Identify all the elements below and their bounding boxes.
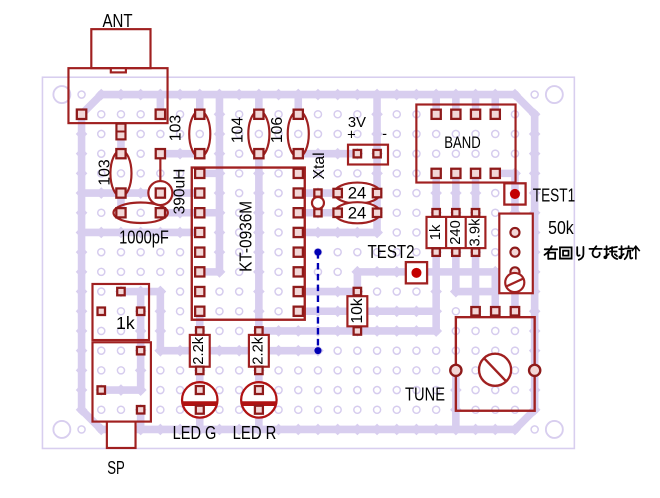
pad Xtal top — [314, 189, 321, 196]
pad 10k top — [354, 288, 361, 295]
pad IC pin left row6 — [195, 208, 204, 217]
wire row6: C-1000pF to IC pin3 and col8 — [155, 207, 226, 219]
capacitor C 104 — [248, 111, 269, 157]
wire col8: top rail down through IC — [214, 89, 226, 278]
pad ANT right — [156, 110, 165, 119]
wire col19: R-1k down to row12 — [430, 246, 442, 336]
pad BAND bottom col19 — [432, 169, 441, 178]
wire col8 to IC pin6 — [194, 266, 225, 278]
battery connector 3V — [348, 145, 388, 165]
wire top rail to BAND pad d — [489, 89, 501, 120]
svg-text:TEST2: TEST2 — [368, 241, 415, 262]
pad IC pin left row10 — [195, 287, 204, 296]
svg-text:LED R: LED R — [233, 422, 277, 443]
wire top rail to C-103b — [194, 89, 206, 120]
svg-text:390uH: 390uH — [171, 169, 188, 215]
LED R — [241, 382, 276, 417]
pad C 103a bottom — [116, 188, 125, 197]
note: migimawari de teikou up (clockwise raises resistance) — [545, 246, 633, 260]
wire SP pad to bottom rail — [135, 404, 147, 435]
wire col15 elbow to R-10k top — [352, 266, 364, 297]
pad SP left — [98, 386, 105, 393]
mounting hole top-right — [546, 86, 563, 103]
wire row10 to col22 — [450, 286, 501, 298]
wire IC pin8 to R-2.2k G — [194, 305, 206, 336]
wire row9: R-10k top via TEST2 to VR-50k edge — [352, 266, 502, 278]
pad resistor top col20 — [452, 209, 459, 216]
wire LED G to bottom rail — [194, 404, 206, 435]
wire col23: TEST1 through VR-50k to TUNE — [509, 168, 521, 318]
pad 24 right row5 — [373, 189, 381, 197]
wire top rail to BAND pad c — [470, 89, 482, 120]
wire col5 down to row13 — [155, 286, 167, 357]
svg-text:106: 106 — [269, 117, 286, 144]
wire col10: C-104 down through IC to row12 — [253, 148, 265, 337]
wire col4: through jacks — [135, 286, 147, 396]
pad 390uH top — [156, 149, 165, 158]
pad IC pin right row9 — [294, 267, 303, 276]
svg-text:2.2k: 2.2k — [191, 336, 207, 365]
pad SP bottom — [137, 406, 144, 413]
capacitor C 103b — [189, 111, 210, 157]
wire IC pin1 to col8 — [194, 168, 225, 180]
LED G — [182, 382, 217, 417]
capacitor 1000pF — [113, 203, 167, 223]
pad 2.2k G top — [196, 327, 203, 334]
pad LED R anode — [255, 386, 263, 394]
wire row12: col10 junction to col19 — [253, 325, 442, 337]
perfboard hole grid — [78, 91, 538, 433]
inductor L 390uH — [148, 154, 172, 205]
pad C 103b top — [195, 110, 204, 119]
pad IC pin left row11 — [195, 307, 204, 316]
phone jack 1k — [92, 284, 149, 340]
pad resistor bottom col20 — [452, 248, 459, 255]
wire row5: IC pin15, Xtal, 24a — [292, 187, 343, 199]
pad IC pin left row8 — [195, 248, 204, 257]
switch BAND — [416, 105, 515, 183]
wire row7-left: left rail to IC pin4 — [76, 227, 206, 239]
pad SP top — [137, 347, 144, 354]
pad 1k jack right — [137, 308, 144, 315]
wire row10: IC pin10 to R-10k — [292, 286, 363, 298]
capacitor 24 row6 — [334, 202, 380, 223]
svg-text:SP: SP — [107, 457, 125, 478]
wire top rail to BAND pad a — [430, 89, 442, 120]
pad 1k jack left — [98, 308, 105, 315]
capacitor 24 row5 — [334, 183, 380, 204]
svg-text:3.9k: 3.9k — [467, 218, 483, 247]
svg-text:Xtal: Xtal — [311, 152, 328, 179]
pad IC pin right row5 — [294, 188, 303, 197]
pad IC pin right row4 — [294, 169, 303, 178]
wire BAND pad d east — [489, 168, 520, 180]
pad 1k jack top — [117, 288, 124, 295]
wire top rail to C-106 — [292, 89, 304, 120]
wire row7-right: IC pin13 to col16 — [292, 227, 382, 239]
pad resistor bottom col21 — [472, 248, 479, 255]
svg-text:1k: 1k — [428, 224, 444, 240]
pad battery + — [354, 150, 361, 157]
pad BAND top col19 — [432, 110, 441, 119]
svg-text:50k: 50k — [548, 217, 574, 238]
pad 24 left row6 — [333, 209, 341, 217]
capacitor C 103a — [110, 150, 131, 196]
pad resistor top col19 — [432, 209, 439, 216]
resistor R 10k — [347, 296, 367, 326]
svg-text:24: 24 — [348, 184, 367, 203]
pad C 106 top — [294, 110, 303, 119]
pad 10k bottom — [354, 327, 361, 334]
svg-text:240: 240 — [448, 220, 464, 245]
pad LED R cathode — [255, 406, 263, 414]
wire perimeter loop: ANT pad via top row, right column, bottom row, left column — [76, 89, 541, 436]
PCB board outline — [42, 77, 574, 448]
wire BAND to R-240 — [450, 168, 462, 219]
pad 24 right row6 — [373, 209, 381, 217]
wire BAND to R-1k — [430, 168, 442, 219]
svg-text:1k: 1k — [116, 313, 135, 333]
pad 2.2k R bottom — [255, 367, 262, 374]
svg-text:104: 104 — [229, 117, 246, 144]
pad IC pin right row11 — [294, 307, 303, 316]
mounting hole bottom-left — [53, 421, 70, 438]
resistor R 2.2k G — [190, 335, 210, 367]
pad 2.2k G bottom — [196, 367, 203, 374]
pad BAND bottom col22 — [491, 169, 500, 178]
wire TUNE left pad to bottom rail — [450, 365, 462, 436]
pad BAND top col20 — [451, 110, 460, 119]
wire C-103a to C-1000pF — [115, 187, 127, 218]
pad 390uH center — [156, 188, 165, 197]
potentiometer VR 50k — [499, 214, 532, 294]
pad BAND bottom col21 — [471, 169, 480, 178]
pad IC pin left row5 — [195, 188, 204, 197]
wire row6: IC pin14, Xtal, 24b — [292, 207, 343, 219]
pad TUNE a — [471, 307, 479, 315]
pad resistor top col21 — [472, 209, 479, 216]
potentiometer TUNE — [450, 317, 540, 411]
pad battery - — [373, 150, 380, 157]
capacitor C 106 — [288, 111, 309, 157]
wire ANT right pad to top rail — [155, 89, 167, 120]
pad 1000pF left — [116, 208, 125, 217]
pad C 104 top — [254, 110, 263, 119]
pad IC pin left row4 — [195, 169, 204, 178]
resistor array R 1k 240 3.9k body — [427, 217, 486, 248]
svg-text:103: 103 — [96, 159, 113, 186]
svg-text:TUNE: TUNE — [405, 384, 445, 405]
pad IC pin right row10 — [294, 287, 303, 296]
pad C 103a top — [116, 149, 125, 158]
svg-text:ANT: ANT — [102, 10, 132, 31]
svg-text:KT-0936M: KT-0936M — [236, 201, 256, 272]
pad IC pin left row9 — [195, 267, 204, 276]
jumper wire dashed col13 — [317, 252, 319, 351]
pad LED G anode — [196, 386, 204, 394]
wire col22 to TUNE pad — [489, 266, 501, 317]
wire row3: C-106 to battery + — [292, 148, 363, 160]
svg-text:BAND: BAND — [444, 133, 480, 152]
pad IC pin left row7 — [195, 228, 204, 237]
resistor R 2.2k R — [249, 335, 269, 367]
wire top rail to C-104 — [253, 89, 265, 120]
wire L-390uH pad to C-103b — [155, 148, 206, 160]
svg-text:+: + — [347, 127, 356, 143]
wire R-2.2k G to LED G — [194, 365, 206, 396]
mounting hole top-left — [53, 86, 70, 103]
wire ANT pin to C-103a — [115, 125, 127, 159]
wire row11: IC pin9 to col19 — [292, 305, 442, 317]
note arrow up — [632, 246, 640, 259]
ANT pin block — [116, 124, 125, 140]
svg-text:103: 103 — [168, 115, 185, 142]
pad ANT left — [77, 110, 86, 119]
pad IC pin right row8 — [294, 248, 303, 257]
svg-text:TEST1: TEST1 — [533, 185, 575, 206]
pad 24 left row5 — [333, 189, 341, 197]
wire col16: top rail through battery and 24 caps to row7 — [371, 89, 383, 239]
wire col21: R-3.9k to TUNE pad — [470, 246, 482, 317]
test point TEST1 — [504, 183, 525, 204]
pad C 106 bottom — [294, 149, 303, 158]
pad C 104 bottom — [254, 149, 263, 158]
pad IC pin right row6 — [294, 208, 303, 217]
wire top rail to BAND pad b — [450, 89, 462, 120]
antenna jack ANT body — [68, 29, 167, 123]
pad Xtal bottom — [314, 209, 321, 216]
svg-text:1000pF: 1000pF — [119, 226, 169, 247]
op-amp IC U1 KT-0936M outline — [192, 168, 305, 320]
wire LED R to bottom rail — [253, 404, 265, 435]
svg-text:24: 24 — [348, 203, 367, 222]
wire col20: R-240 down — [450, 246, 462, 297]
wire row13: col5 to jumper dot — [155, 345, 324, 357]
wire row10: 1k jack pad to col5 — [115, 286, 166, 298]
pad LED G cathode — [196, 406, 204, 414]
pad resistor bottom col19 — [432, 248, 439, 255]
pad BAND top col21 — [471, 110, 480, 119]
svg-text:-: - — [382, 127, 387, 143]
svg-text:10k: 10k — [349, 298, 366, 324]
wire row5: left rail to IC pin2 via C-103a, L-390uH — [76, 187, 206, 199]
wire BAND to R-3.9k — [470, 168, 482, 219]
pad IC pin right row7 — [294, 228, 303, 237]
pad TUNE b — [491, 307, 499, 315]
wire R-2.2k R to LED R — [253, 365, 265, 396]
pad C 103b bottom — [195, 149, 204, 158]
mounting hole bottom-right — [546, 421, 563, 438]
svg-text:2.2k: 2.2k — [250, 336, 266, 365]
node jumper top — [314, 249, 321, 256]
pad BAND bottom col20 — [451, 169, 460, 178]
pad BAND top col22 — [491, 110, 500, 119]
wire row15: SP pad to col4 — [95, 384, 146, 396]
pad 2.2k R top — [255, 327, 262, 334]
pad TUNE c — [511, 307, 519, 315]
speaker jack SP — [92, 342, 150, 448]
pad 1000pF right — [156, 208, 165, 217]
test point TEST2 — [406, 262, 427, 283]
node jumper bottom — [314, 347, 321, 354]
svg-text:LED G: LED G — [173, 422, 217, 443]
